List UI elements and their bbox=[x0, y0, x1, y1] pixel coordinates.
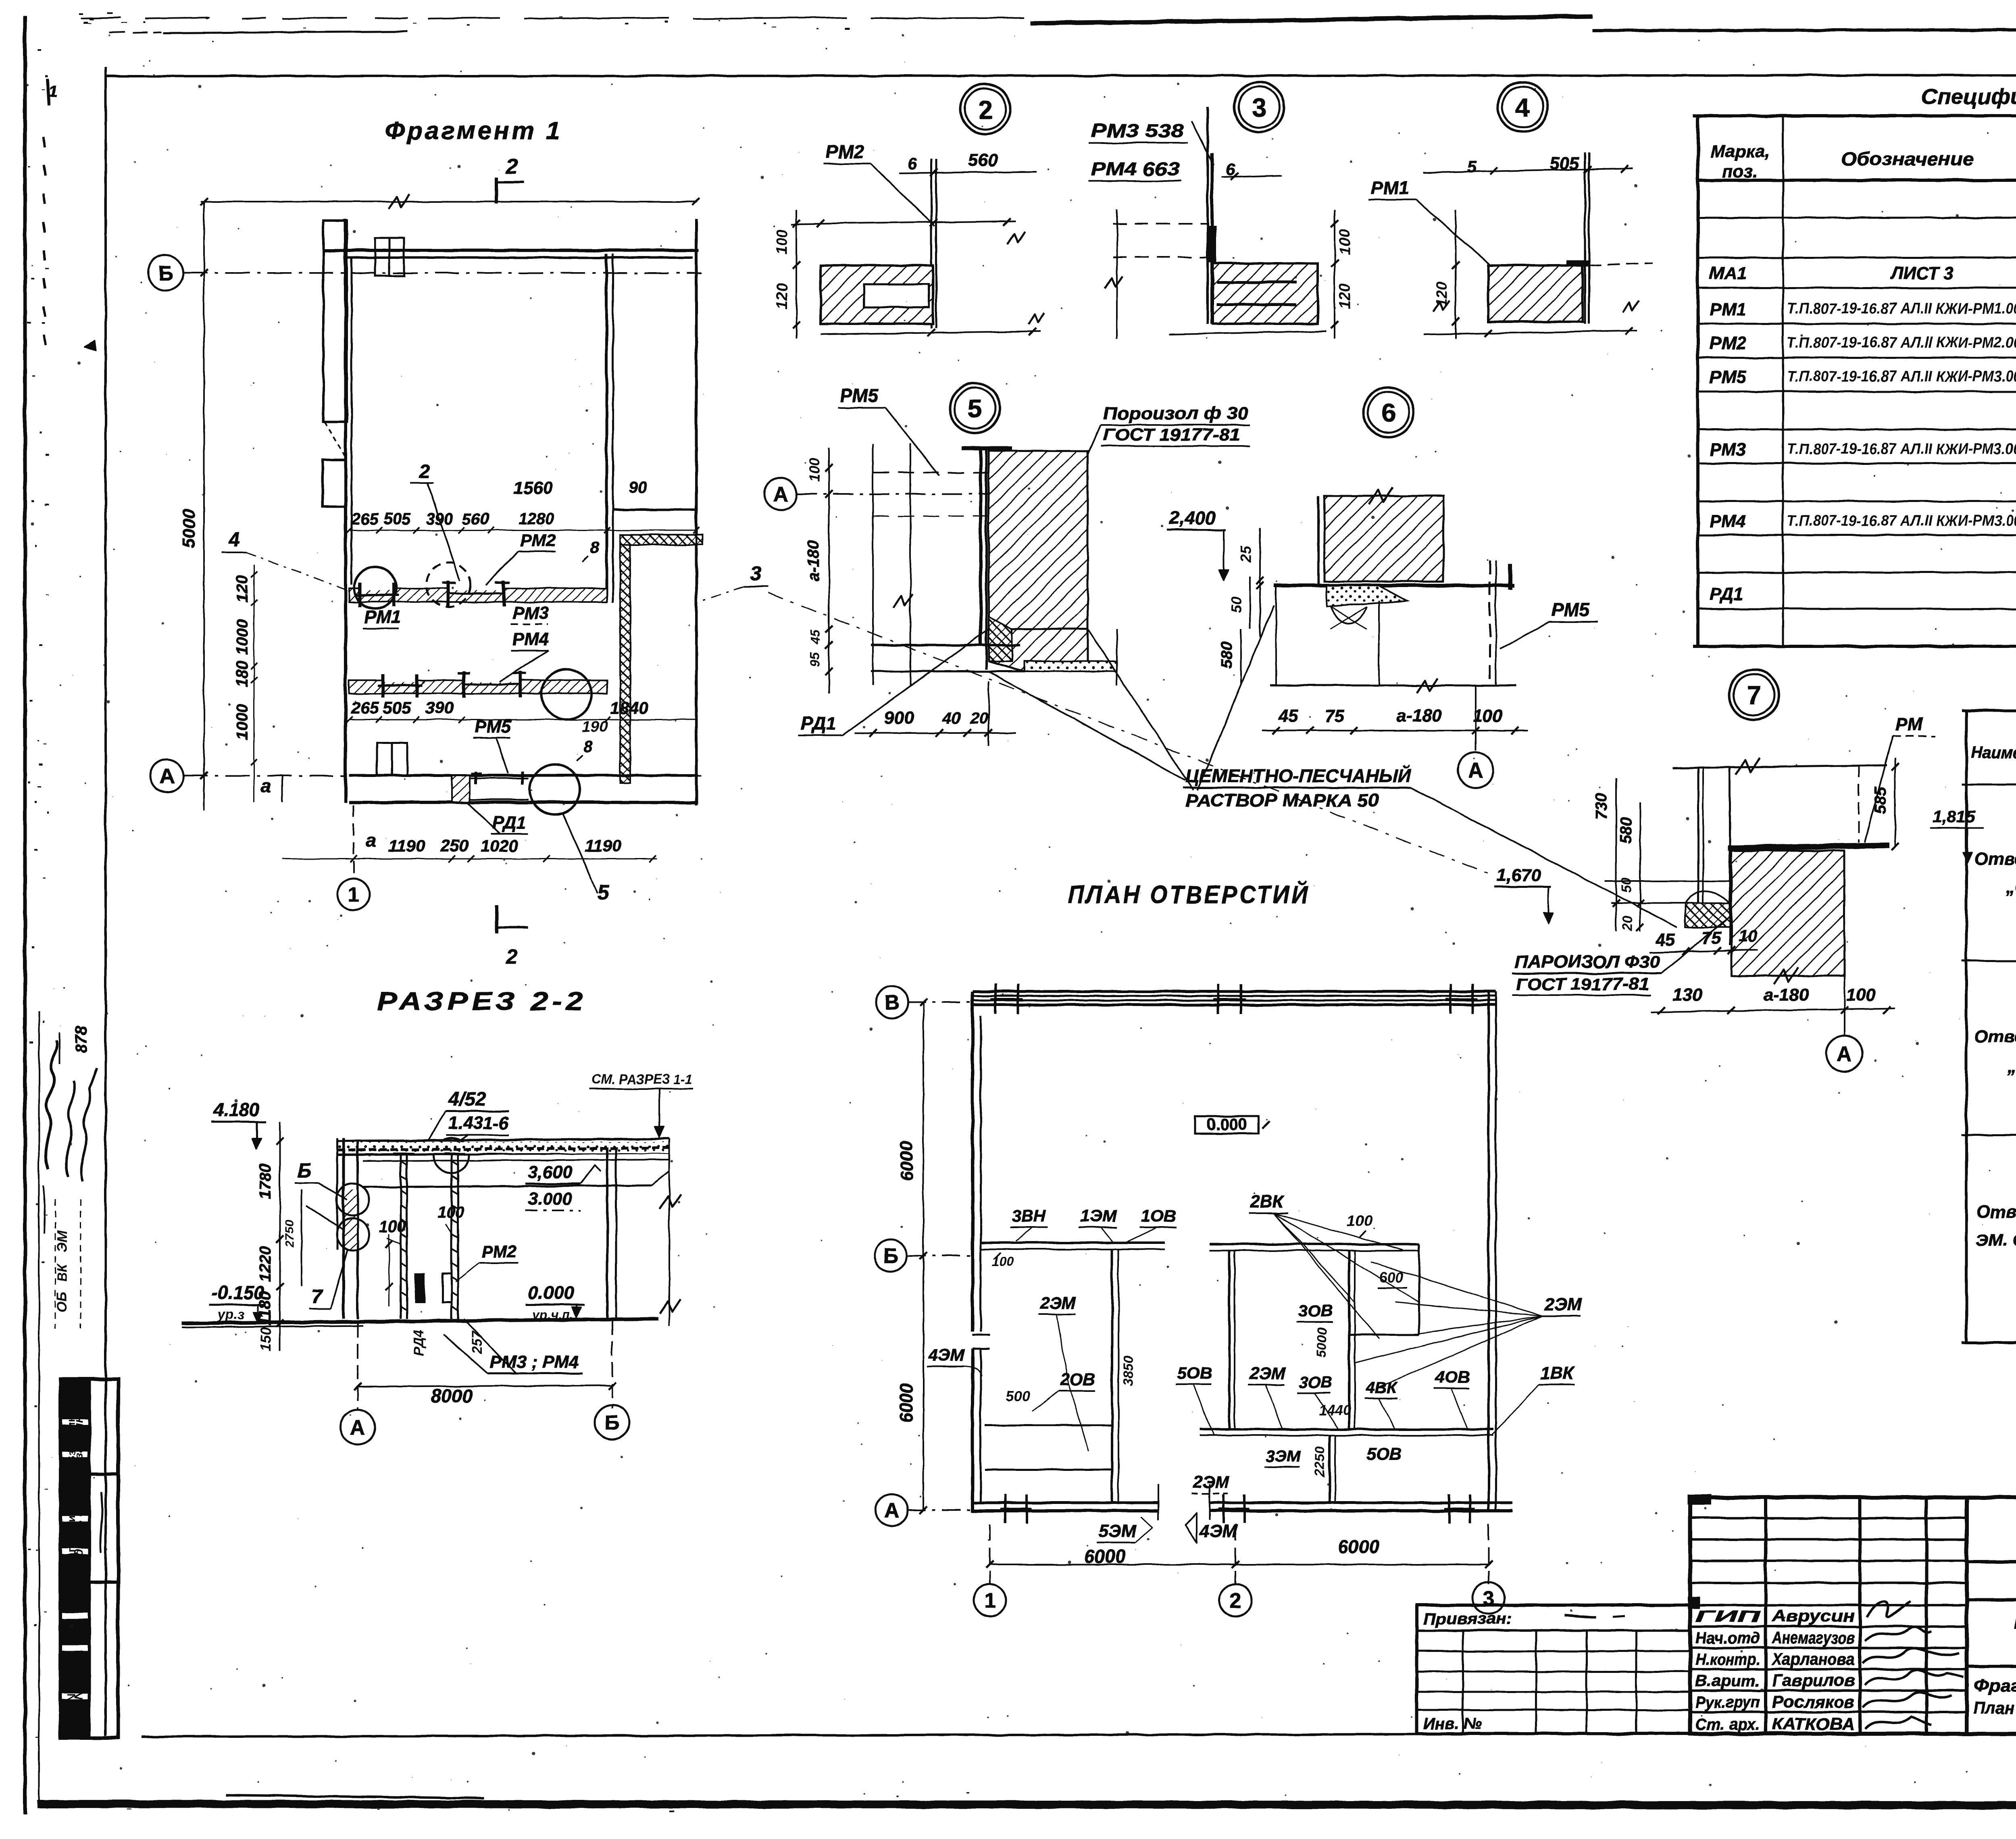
svg-text:1180: 1180 bbox=[256, 1291, 274, 1326]
svg-text:РМ2: РМ2 bbox=[482, 1242, 516, 1261]
svg-text:РМ1: РМ1 bbox=[1710, 300, 1746, 319]
title block signatures bbox=[1867, 1601, 1911, 1617]
svg-text:РД1: РД1 bbox=[1710, 584, 1743, 604]
svg-text:Т.П.807-19-16.87 АЛ.ІІ КЖИ-РМ2: Т.П.807-19-16.87 АЛ.ІІ КЖИ-РМ2.000 bbox=[1787, 334, 2016, 351]
svg-text:РД4: РД4 bbox=[411, 1329, 427, 1356]
svg-text:„ВК“: „ВК“ bbox=[2007, 1057, 2016, 1077]
svg-text:120: 120 bbox=[774, 283, 791, 309]
fragment1 axis A tick left bbox=[281, 776, 283, 802]
svg-text:3.000: 3.000 bbox=[528, 1189, 573, 1209]
svg-text:2ВК: 2ВК bbox=[1250, 1192, 1285, 1212]
svg-text:6: 6 bbox=[1381, 398, 1396, 427]
detail 5 left dim chain bbox=[828, 448, 830, 694]
svg-text:А: А bbox=[1837, 1043, 1852, 1066]
svg-text:2ЭМ: 2ЭМ bbox=[1544, 1295, 1582, 1314]
section steel column 1 bbox=[400, 1154, 402, 1319]
svg-text:РМ5: РМ5 bbox=[1710, 367, 1746, 387]
section node circles left bbox=[337, 1183, 369, 1216]
plan left door tick 4EM bbox=[973, 1334, 990, 1336]
detail 2 bottom line bbox=[821, 331, 1040, 334]
fragment1 right interior wall bbox=[605, 254, 608, 602]
detail 7 bottom dim row bbox=[1651, 1009, 1895, 1012]
svg-text:В.арит.: В.арит. bbox=[1695, 1672, 1760, 1690]
left margin inner line bbox=[38, 1012, 40, 1802]
svg-text:580: 580 bbox=[1218, 642, 1235, 669]
title block central grid outer bbox=[1690, 1497, 1967, 1734]
svg-text:а: а bbox=[366, 830, 376, 851]
section roof hatch texture bbox=[338, 1142, 669, 1153]
paper top inner partial line bbox=[163, 31, 407, 33]
detail 3 dashed lines left bbox=[1113, 223, 1208, 225]
scan edge line far left bbox=[23, 16, 27, 1814]
svg-text:6000: 6000 bbox=[897, 1383, 916, 1423]
svg-text:РД1: РД1 bbox=[492, 813, 526, 833]
detail 7 axis circle A bbox=[1843, 976, 1845, 1035]
detail 5 top beam bbox=[962, 446, 1012, 450]
svg-text:РМ4: РМ4 bbox=[512, 629, 549, 649]
svg-text:Фрагмент 1: Фрагмент 1 bbox=[385, 117, 562, 145]
svg-text:ПЛАН ОТВЕРСТИЙ: ПЛАН ОТВЕРСТИЙ bbox=[1068, 880, 1310, 909]
svg-text:5000: 5000 bbox=[1314, 1327, 1330, 1358]
svg-text:10: 10 bbox=[1739, 926, 1758, 945]
section ground line bbox=[181, 1319, 658, 1323]
fragment1 interior dim row upper bbox=[349, 530, 696, 531]
svg-text:1440: 1440 bbox=[1318, 1402, 1351, 1418]
svg-text:а: а bbox=[261, 775, 271, 796]
svg-text:РМ3: РМ3 bbox=[1710, 440, 1746, 460]
detail 7 rotated dims bbox=[1615, 778, 1617, 931]
svg-text:Анемагузов: Анемагузов bbox=[1772, 1628, 1855, 1647]
svg-text:45: 45 bbox=[1278, 706, 1298, 726]
svg-text:3: 3 bbox=[750, 562, 762, 585]
fragment1 callout circle PM4 bbox=[541, 669, 591, 719]
axis circle 1 fragment bbox=[337, 878, 370, 910]
svg-text:4.180: 4.180 bbox=[213, 1099, 260, 1120]
fragment1 frame symbol PM2 bbox=[446, 581, 449, 607]
detail 2 node circle bbox=[960, 84, 1010, 134]
section roof slab bbox=[337, 1139, 669, 1141]
svg-text:100: 100 bbox=[1846, 985, 1876, 1005]
svg-text:РМ3: РМ3 bbox=[512, 603, 549, 623]
svg-text:560: 560 bbox=[968, 150, 998, 170]
plan bottom dim line bbox=[990, 1564, 1489, 1565]
plan interior vertical partition left bbox=[1111, 1249, 1113, 1503]
detail 7 node circle bbox=[1729, 670, 1779, 720]
sheet frame bottom bbox=[141, 1732, 2016, 1737]
svg-text:ГОСТ 19177-81: ГОСТ 19177-81 bbox=[1103, 425, 1240, 444]
svg-text:100: 100 bbox=[379, 1218, 406, 1235]
left stamp table priviazan bbox=[1417, 1605, 1690, 1734]
title block right dividers bbox=[1967, 1560, 2016, 1563]
sheet frame top bbox=[106, 75, 2016, 76]
svg-text:Б: Б bbox=[158, 262, 173, 285]
svg-text:4: 4 bbox=[228, 528, 240, 551]
fragment1 interior dim row lower bbox=[349, 719, 696, 721]
svg-text:Т.П.807-19-16.87 АЛ.ІІ КЖИ-РМ3: Т.П.807-19-16.87 АЛ.ІІ КЖИ-РМ3.000 bbox=[1787, 512, 2016, 529]
svg-text:4: 4 bbox=[1515, 93, 1530, 122]
svg-text:25: 25 bbox=[1237, 546, 1254, 563]
detail 5 axis circle A bbox=[764, 478, 797, 510]
svg-text:2: 2 bbox=[506, 155, 518, 178]
svg-text:РАЗРЕЗ 2-2: РАЗРЕЗ 2-2 bbox=[377, 987, 587, 1016]
section leader from ceiling to right bbox=[652, 1171, 669, 1185]
detail 6 node circle bbox=[1364, 387, 1414, 437]
axis circle A fragment bbox=[150, 759, 183, 792]
detail 5 interior verticals bbox=[872, 444, 874, 685]
svg-text:50: 50 bbox=[1228, 597, 1244, 613]
detail 7 hatched pier bbox=[1731, 851, 1844, 976]
svg-text:РМ2: РМ2 bbox=[826, 141, 864, 162]
fragment1 section mark 2 top bbox=[495, 177, 498, 204]
svg-text:Рук.груп: Рук.груп bbox=[1695, 1693, 1760, 1711]
stray marks on priviazan header bbox=[1564, 1615, 1597, 1618]
svg-text:Т.П.807-19-16.87 АЛ.ІІ КЖИ-РМ3: Т.П.807-19-16.87 АЛ.ІІ КЖИ-РМ3.000 bbox=[1787, 368, 2016, 385]
section ceiling line bbox=[362, 1185, 652, 1187]
edge dust clusters bbox=[39, 645, 42, 646]
svg-text:2ЭМ: 2ЭМ bbox=[1193, 1472, 1230, 1491]
plan interior verticals middle bbox=[1228, 1251, 1231, 1429]
svg-text:1,815: 1,815 bbox=[1933, 807, 1975, 826]
detail 5 gusset crosshatch bbox=[989, 617, 1012, 661]
svg-text:2: 2 bbox=[1230, 1589, 1241, 1613]
svg-text:1560: 1560 bbox=[513, 478, 553, 498]
svg-text:45: 45 bbox=[808, 629, 823, 645]
fragment1 far right wall bbox=[695, 219, 698, 805]
detail 7 top wall bbox=[1673, 765, 1887, 768]
fragment1 hatched band lower bbox=[349, 680, 607, 694]
svg-text:560: 560 bbox=[462, 510, 489, 528]
detail 3 center stud bbox=[1206, 107, 1209, 324]
svg-text:100: 100 bbox=[437, 1204, 464, 1221]
svg-text:КАТКОВА: КАТКОВА bbox=[1772, 1714, 1855, 1733]
svg-text:100: 100 bbox=[806, 458, 823, 482]
spec table grid bbox=[1693, 114, 2016, 117]
svg-text:Инв. №: Инв. № bbox=[1423, 1715, 1482, 1733]
detail 5 wall hatched bbox=[989, 451, 1088, 629]
svg-text:0.000: 0.000 bbox=[1207, 1116, 1247, 1133]
svg-text:2ЭМ: 2ЭМ bbox=[1250, 1364, 1286, 1383]
paper top edge artifact segments bbox=[1030, 16, 1593, 23]
fragment1 bottom door hatched jambs bbox=[452, 775, 470, 802]
svg-text:1ОВ: 1ОВ bbox=[1141, 1206, 1176, 1225]
svg-text:500: 500 bbox=[412, 1279, 428, 1302]
plan left dim line bbox=[923, 1002, 924, 1510]
detail 4 dim left bbox=[1455, 210, 1456, 339]
fragment1 small window symbol top bbox=[375, 238, 404, 276]
detail 6 left dims bbox=[1259, 528, 1261, 637]
svg-text:а-180: а-180 bbox=[804, 540, 822, 581]
detail 5 node circle bbox=[950, 383, 1000, 433]
detail 6 bottom line bbox=[1270, 685, 1516, 687]
svg-text:0.000: 0.000 bbox=[528, 1282, 575, 1303]
svg-text:Пункт приготовления: Пункт приготовления bbox=[2014, 1612, 2016, 1633]
svg-text:1220: 1220 bbox=[256, 1246, 274, 1282]
plan interior shelves left room bbox=[985, 1425, 1112, 1427]
section right break marks bbox=[669, 1139, 670, 1327]
detail 7 long dash leader from fragment bbox=[768, 593, 1492, 875]
svg-text:4ОВ: 4ОВ bbox=[1435, 1368, 1470, 1387]
svg-text:1000: 1000 bbox=[233, 619, 251, 655]
fragment1 right step wall bbox=[613, 508, 696, 511]
fragment1 frame symbol on band lower left bbox=[381, 674, 385, 698]
detail 4 hatched masonry bbox=[1489, 265, 1583, 322]
plan top wall band bbox=[973, 990, 1496, 993]
fragment1 frame symbol RD1 bottom bbox=[475, 771, 477, 784]
svg-text:4ЭМ: 4ЭМ bbox=[1199, 1521, 1237, 1541]
detail 7 verticals bbox=[1697, 768, 1699, 909]
detail 2 vertical stud bbox=[931, 159, 933, 328]
svg-text:Т.П.807-19-16.87 АЛ.ІІ КЖИ-РМ3: Т.П.807-19-16.87 АЛ.ІІ КЖИ-РМ3.000 bbox=[1787, 441, 2016, 458]
svg-text:Аврусин: Аврусин bbox=[1772, 1606, 1855, 1625]
svg-text:5ЭМ: 5ЭМ bbox=[1099, 1521, 1137, 1541]
svg-text:3ОВ: 3ОВ bbox=[1298, 1301, 1333, 1320]
svg-text:РМ5: РМ5 bbox=[1552, 599, 1590, 620]
svg-text:Спецификация элементов стен: Спецификация элементов стен bbox=[1921, 85, 2016, 109]
svg-text:4ЭМ: 4ЭМ bbox=[928, 1345, 965, 1364]
svg-text:1020: 1020 bbox=[480, 836, 518, 855]
detail 7 right dims bbox=[1894, 758, 1896, 847]
detail 2 left dim chain bbox=[796, 210, 797, 339]
svg-text:1840: 1840 bbox=[610, 698, 648, 717]
svg-text:1: 1 bbox=[348, 883, 360, 907]
section axis circles bbox=[340, 1410, 375, 1444]
svg-text:Росляков: Росляков bbox=[1772, 1692, 1855, 1711]
svg-text:В: В bbox=[884, 991, 900, 1015]
svg-text:5ОВ: 5ОВ bbox=[1367, 1444, 1402, 1463]
svg-text:390: 390 bbox=[425, 698, 454, 717]
plan left wall bbox=[971, 991, 974, 1331]
svg-text:6000: 6000 bbox=[1084, 1546, 1126, 1567]
svg-text:6: 6 bbox=[907, 154, 917, 173]
svg-text:5ОВ: 5ОВ bbox=[1177, 1364, 1212, 1383]
detail 3 top dim line bbox=[1222, 176, 1282, 177]
svg-text:2750: 2750 bbox=[283, 1220, 296, 1248]
svg-text:Пороизол ф 30: Пороизол ф 30 bbox=[1103, 404, 1249, 423]
plan interior vertical lower bbox=[1329, 1435, 1331, 1503]
svg-text:4/52: 4/52 bbox=[448, 1089, 486, 1110]
svg-text:2ОВ: 2ОВ bbox=[1060, 1370, 1095, 1389]
plan bottom axis circles bbox=[989, 1524, 991, 1584]
svg-text:„ОВ“: „ОВ“ bbox=[2006, 877, 2016, 897]
svg-text:8: 8 bbox=[590, 539, 599, 557]
section left dim chain bbox=[279, 1122, 281, 1351]
svg-text:РМ5: РМ5 bbox=[475, 717, 511, 737]
svg-text:а-180: а-180 bbox=[1397, 706, 1442, 726]
svg-text:130: 130 bbox=[1672, 985, 1702, 1005]
detail 6 axis circle A bbox=[1475, 685, 1477, 751]
fragment1 left wall bbox=[344, 219, 347, 803]
svg-text:Ст. арх.: Ст. арх. bbox=[1695, 1716, 1760, 1733]
svg-text:РМ4 663: РМ4 663 bbox=[1091, 158, 1180, 179]
detail 6 wall hatched bbox=[1325, 496, 1443, 581]
svg-text:2: 2 bbox=[978, 95, 993, 124]
scan noise speckles bbox=[149, 60, 151, 61]
svg-text:585: 585 bbox=[1872, 787, 1889, 814]
fragment1 bottom dim row bbox=[282, 858, 657, 860]
svg-text:1000: 1000 bbox=[233, 704, 251, 740]
fragment1 top wall bbox=[323, 249, 699, 252]
svg-text:3: 3 bbox=[1483, 1587, 1495, 1610]
svg-text:РМ2: РМ2 bbox=[1710, 333, 1746, 353]
svg-text:6000: 6000 bbox=[897, 1141, 916, 1181]
svg-text:РМ2: РМ2 bbox=[520, 531, 556, 550]
svg-text:95: 95 bbox=[808, 652, 823, 666]
svg-text:1: 1 bbox=[48, 83, 57, 100]
svg-text:40: 40 bbox=[942, 710, 961, 727]
plan door swing marks bbox=[1158, 1484, 1159, 1503]
svg-text:РМ3 538: РМ3 538 bbox=[1091, 120, 1184, 141]
svg-text:РМ5: РМ5 bbox=[840, 385, 879, 406]
svg-text:ЭМ. СЕ. ЛОВ: ЭМ. СЕ. ЛОВ bbox=[1976, 1231, 2016, 1250]
fragment1 section mark 2 bottom bbox=[495, 905, 498, 933]
svg-text:90: 90 bbox=[629, 479, 647, 496]
svg-text:190: 190 bbox=[582, 719, 607, 735]
plan interior wall horizontal middle bbox=[1210, 1243, 1419, 1245]
svg-text:3ЭМ: 3ЭМ bbox=[1266, 1447, 1301, 1465]
svg-text:265: 265 bbox=[351, 510, 379, 528]
svg-text:900: 900 bbox=[884, 708, 914, 728]
svg-text:Гаврилов: Гаврилов bbox=[1772, 1671, 1855, 1690]
svg-text:поз.: поз. bbox=[1722, 162, 1758, 181]
svg-text:5: 5 bbox=[598, 881, 610, 904]
svg-text:2,400: 2,400 bbox=[1169, 507, 1216, 528]
svg-text:Взам. инв. №: Взам. инв. № bbox=[65, 1389, 77, 1464]
detail 6 bottom dim row bbox=[1262, 730, 1528, 731]
svg-text:2ЭМ: 2ЭМ bbox=[1040, 1293, 1077, 1312]
section right wall bbox=[606, 1147, 608, 1319]
svg-text:3ОВ: 3ОВ bbox=[1299, 1374, 1332, 1391]
svg-text:1780: 1780 bbox=[256, 1164, 274, 1200]
svg-text:Б: Б bbox=[604, 1411, 619, 1435]
svg-text:Инв. № подл.: Инв. № подл. bbox=[65, 1655, 77, 1730]
detail 3 node circle bbox=[1234, 82, 1284, 132]
svg-text:150: 150 bbox=[257, 1327, 274, 1352]
svg-text:Марка,: Марка, bbox=[1710, 142, 1770, 161]
section left column bbox=[342, 1138, 345, 1319]
svg-text:878: 878 bbox=[73, 1026, 90, 1053]
detail 6 sill bbox=[1274, 584, 1514, 587]
fragment1 frame symbol PM1 bbox=[358, 583, 362, 607]
section label RD1 leader bbox=[306, 1206, 343, 1230]
svg-text:ВК: ВК bbox=[54, 1263, 70, 1282]
svg-text:ГОСТ 19177-81: ГОСТ 19177-81 bbox=[1516, 975, 1649, 993]
svg-text:100: 100 bbox=[1473, 706, 1503, 726]
fragment1 callout circle PM1 bbox=[354, 567, 396, 609]
detail 6 jamb lines bbox=[1275, 585, 1277, 685]
svg-text:РМ: РМ bbox=[1895, 714, 1924, 735]
detail 5 interior dashed lines bbox=[873, 472, 989, 473]
plan bottom wall column symbols bbox=[1004, 1494, 1007, 1523]
plan top wall column symbols bbox=[994, 984, 997, 1014]
svg-text:Наименование: Наименование bbox=[1971, 744, 2016, 762]
section small frames on columns bbox=[415, 1274, 424, 1302]
detail 6 long leader bbox=[1198, 605, 1274, 790]
svg-text:5: 5 bbox=[1467, 157, 1477, 176]
svg-text:100: 100 bbox=[774, 229, 791, 254]
svg-text:ЦЕМЕНТНО-ПЕСЧАНЫЙ: ЦЕМЕНТНО-ПЕСЧАНЫЙ bbox=[1185, 765, 1412, 786]
left margin small rotated labels OB VK EM bbox=[55, 1200, 56, 1329]
svg-text:100: 100 bbox=[1337, 229, 1354, 254]
detail 2 hatched masonry bbox=[821, 265, 933, 324]
svg-text:2: 2 bbox=[419, 461, 430, 482]
openings table grid bbox=[1962, 709, 2016, 712]
svg-text:3: 3 bbox=[1252, 93, 1266, 122]
svg-text:ур.з: ур.з bbox=[217, 1307, 244, 1322]
detail 7 lintel heavy bbox=[1728, 846, 1889, 848]
svg-text:ПАРОИЗОЛ Ф30: ПАРОИЗОЛ Ф30 bbox=[1514, 952, 1660, 972]
svg-text:А: А bbox=[1468, 759, 1483, 783]
detail 4 stud bbox=[1584, 153, 1586, 324]
svg-text:А: А bbox=[884, 1499, 900, 1522]
fragment1 small window symbol bottom bbox=[377, 743, 407, 775]
svg-text:ур.ч.п.: ур.ч.п. bbox=[531, 1308, 573, 1322]
svg-text:100: 100 bbox=[992, 1254, 1014, 1269]
svg-text:Н.контр.: Н.контр. bbox=[1695, 1651, 1760, 1668]
svg-text:2: 2 bbox=[506, 945, 518, 968]
svg-text:500: 500 bbox=[1006, 1388, 1030, 1404]
title block right outer bbox=[1967, 1497, 2016, 1734]
svg-text:РМ4: РМ4 bbox=[1710, 512, 1746, 531]
svg-text:Б: Б bbox=[297, 1159, 311, 1182]
svg-text:2250: 2250 bbox=[1312, 1446, 1328, 1477]
svg-text:Отверстия: Отверстия bbox=[1974, 849, 2016, 869]
fragment1 bottom wall bbox=[349, 774, 698, 777]
svg-text:1190: 1190 bbox=[585, 836, 621, 855]
svg-text:120: 120 bbox=[233, 575, 251, 602]
left margin signature scribbles rotated bbox=[46, 1040, 57, 1169]
title block central grid rows bbox=[1690, 1517, 1967, 1519]
plan interior wall horizontal left room bbox=[981, 1241, 1165, 1244]
svg-text:50: 50 bbox=[1619, 877, 1634, 893]
svg-text:РМ1: РМ1 bbox=[364, 607, 401, 627]
title block corner smudges bbox=[1687, 1494, 1712, 1505]
svg-text:1190: 1190 bbox=[388, 836, 425, 855]
svg-text:РАСТВОР МАРКА 50: РАСТВОР МАРКА 50 bbox=[1185, 791, 1379, 810]
svg-text:Т.П.807-19-16.87 АЛ.ІІ КЖИ-РМ1: Т.П.807-19-16.87 АЛ.ІІ КЖИ-РМ1.000 bbox=[1787, 300, 2016, 317]
svg-text:Фрагмент 1; Разрез 2-2: Фрагмент 1; Разрез 2-2 bbox=[1974, 1676, 2016, 1695]
svg-text:Обозначение: Обозначение bbox=[1841, 148, 1974, 169]
svg-text:Б: Б bbox=[883, 1245, 898, 1268]
svg-text:РМ3 ; РМ4: РМ3 ; РМ4 bbox=[490, 1352, 579, 1372]
svg-text:580: 580 bbox=[1617, 817, 1635, 844]
heavy scanner bottom line bbox=[37, 1804, 2016, 1806]
fragment1 left rotated dims bbox=[254, 564, 255, 802]
svg-text:6000: 6000 bbox=[1338, 1536, 1380, 1557]
svg-text:257: 257 bbox=[470, 1331, 485, 1355]
svg-text:ЛИСТ 3: ЛИСТ 3 bbox=[1890, 263, 1954, 283]
svg-text:100: 100 bbox=[1347, 1212, 1372, 1229]
svg-text:Харланова: Харланова bbox=[1771, 1649, 1855, 1668]
plan small room partitions right bbox=[1418, 1244, 1420, 1335]
fragment1 hatched band upper bbox=[349, 588, 607, 602]
svg-text:Нач.отд: Нач.отд bbox=[1695, 1629, 1760, 1647]
svg-text:Отверстия: Отверстия bbox=[1974, 1027, 2016, 1046]
fragment1 frame symbol PM3 PM4 bbox=[462, 671, 465, 698]
svg-text:5000: 5000 bbox=[179, 509, 199, 548]
section dim 8000 bbox=[358, 1385, 612, 1387]
svg-text:730: 730 bbox=[1593, 793, 1610, 820]
detail 4 node circle bbox=[1497, 82, 1547, 132]
plan axis circles left bbox=[876, 986, 908, 1018]
svg-text:120: 120 bbox=[1337, 283, 1354, 309]
svg-text:1ЭМ: 1ЭМ bbox=[1081, 1206, 1117, 1225]
svg-text:Привязан:: Привязан: bbox=[1423, 1610, 1512, 1628]
plan right wall bbox=[1487, 991, 1490, 1512]
plan bottom wall bbox=[973, 1502, 1158, 1504]
svg-text:180: 180 bbox=[233, 661, 251, 688]
svg-text:А: А bbox=[773, 483, 788, 506]
detail 5 bottom floor bbox=[871, 644, 1020, 646]
